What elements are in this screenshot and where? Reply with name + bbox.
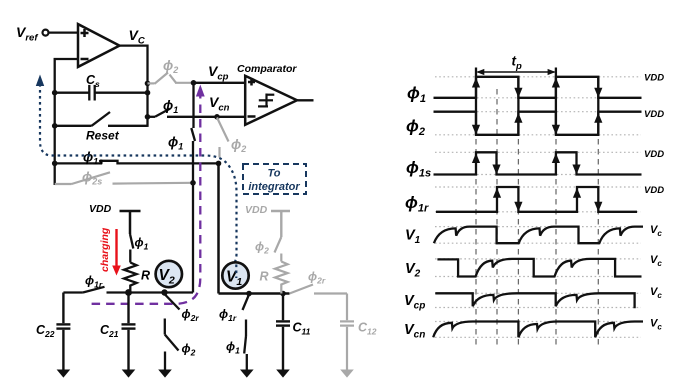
switch Reset [55, 112, 148, 126]
svg-text:R: R [260, 270, 269, 284]
svg-text:VDD: VDD [89, 203, 112, 215]
svg-text:charging: charging [99, 227, 111, 272]
node Cs right [145, 90, 151, 96]
switch phi1 VDD branch [130, 234, 133, 263]
wire Vcn [167, 116, 245, 118]
node VC phi1 branch [145, 114, 151, 120]
switch phi1s [55, 161, 219, 164]
switch phi2 to ground [165, 335, 179, 370]
svg-text:VDD: VDD [644, 149, 664, 160]
node Vcn [214, 114, 220, 120]
comparator U2 [245, 76, 297, 125]
edge arrowheads phi1 phi2 [472, 78, 603, 135]
resistor R black [124, 263, 137, 293]
switch phi2r gray [290, 285, 348, 294]
waveform phi2 [434, 112, 642, 135]
waveform phi1s [434, 152, 642, 174]
svg-text:VDD: VDD [644, 185, 664, 196]
op-amp U1 [78, 24, 120, 67]
tp dimension arrow [478, 71, 555, 73]
ground C11 [276, 370, 290, 378]
svg-text:integrator: integrator [248, 181, 300, 193]
timing gridlines [476, 89, 598, 345]
wire column Vcn/phi1s to V1 corner [217, 163, 220, 293]
capacitor C22 [56, 293, 70, 370]
power VDD black [120, 211, 141, 234]
ground C21 [122, 370, 136, 378]
comparator hysteresis symbol [258, 94, 274, 108]
switch phi1 to ground [244, 336, 247, 370]
wire column Vcp to V2 corner [191, 83, 195, 293]
clock edge lines [476, 68, 598, 135]
blue dotted feedback path [40, 84, 237, 266]
To integrator dashed box [243, 164, 306, 194]
svg-text:VDD: VDD [245, 204, 268, 216]
node Reset left [52, 123, 58, 129]
switch phi1r below V1 [243, 295, 250, 337]
waveform Vcn [433, 322, 643, 338]
ground C12 gray [340, 370, 354, 378]
node Cs left [52, 90, 58, 96]
wire inverting input feedback [55, 59, 78, 185]
input terminal Vref [43, 30, 49, 36]
wire Vcp [194, 82, 246, 84]
node VC phi2 branch [145, 81, 151, 87]
waveform phi1r [436, 187, 637, 212]
edge arrowheads phi1r [493, 188, 603, 212]
wire VC column [146, 45, 148, 127]
purple measurement path [92, 94, 201, 304]
waveform V2 [437, 259, 641, 277]
node phi2r branch [161, 289, 167, 295]
node C11 junction [280, 291, 286, 297]
svg-text:VDD: VDD [644, 109, 664, 120]
capacitor C12 gray [340, 294, 354, 370]
node phi2s on column [190, 180, 196, 186]
switch phi2s gray [55, 172, 193, 184]
switch phi2r below V2 [164, 294, 180, 335]
timing level dotted lines [435, 77, 641, 338]
capacitor C21 [122, 293, 136, 370]
wire V2 node line [63, 287, 193, 293]
capacitor Cs [55, 85, 148, 101]
svg-text:Comparator: Comparator [237, 63, 297, 75]
wire op-amp output [120, 44, 148, 46]
power VDD gray [271, 211, 290, 237]
circled node V1 [222, 262, 248, 288]
switch phi2 gray VDD branch [275, 237, 282, 262]
circled node V2 [156, 261, 182, 287]
switch phi1 top (VC to Vcn) [148, 109, 171, 117]
node R C21 junction [125, 289, 132, 296]
node phi1r branch [246, 291, 252, 297]
svg-text:Reset: Reset [86, 129, 120, 143]
waveform V1 [434, 227, 643, 244]
wire comparator output [297, 99, 314, 101]
blue dotted feedback path arrowhead [36, 75, 44, 87]
ground C22 [57, 370, 71, 378]
switch phi2 gray top (VC to Vcp) [148, 73, 194, 84]
ground phi1 switch [240, 370, 254, 378]
svg-text:To: To [267, 168, 280, 180]
capacitor C11 [276, 294, 290, 370]
wire Vref to op-amp + input [49, 31, 78, 33]
svg-text:VDD: VDD [644, 73, 664, 84]
ground phi2 switch [158, 370, 172, 378]
resistor R gray [275, 262, 288, 294]
waveform Vcp [435, 293, 634, 308]
blue dotted path into node V1 [235, 265, 237, 279]
wire V1 node line [219, 292, 290, 295]
red charging arrow [115, 229, 117, 267]
waveform phi1 [434, 77, 642, 98]
node Vcp [191, 80, 197, 86]
purple arrowhead [196, 85, 205, 97]
node phi1s left [52, 161, 58, 167]
node phi1s right [216, 161, 222, 167]
edge arrowheads phi1s [472, 153, 581, 175]
svg-text:R: R [141, 269, 150, 283]
switch phi2 gray (Vcn to V1 column) [217, 118, 229, 158]
